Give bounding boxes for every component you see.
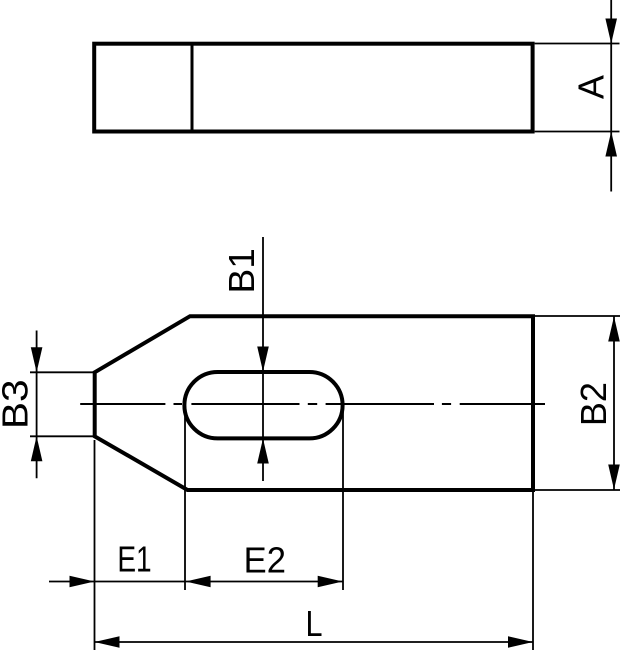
- dimension B2: upper extension line: [535, 315, 620, 317]
- bottom view: plate plan outline: [95, 316, 533, 490]
- svg-text:B2: B2: [573, 382, 614, 426]
- dimension B2: lower extension line: [535, 489, 620, 491]
- svg-text:L: L: [305, 605, 322, 645]
- extension line: slot left edge / taper corner extended down (E1/E2 bound): [184, 406, 186, 590]
- dimension B3: lower arrow (points up): [31, 436, 43, 461]
- dimension E1/E2: shared dimension line: [49, 581, 343, 583]
- extension line: left tip edge extended down (E1/L left bound): [94, 440, 96, 650]
- dimension E2: left arrow (points left): [186, 576, 211, 588]
- dimension A: lower arrow (points up): [605, 132, 617, 157]
- top view: plate side outline: [94, 44, 532, 132]
- dimension B3: upper extension line: [30, 371, 93, 373]
- dimension B2: upper arrow (points up): [608, 317, 620, 342]
- dimension A: upper arrow (points down): [605, 19, 617, 44]
- extension line: slot right edge extended down (E2 right bound): [342, 406, 344, 590]
- dimension B2: lower arrow (points down): [608, 465, 620, 490]
- centerline (dash-dot): [80, 403, 545, 405]
- extension line: plate right edge extended down (L right bound): [532, 492, 534, 650]
- dimension L: right arrow (points right): [508, 636, 533, 648]
- svg-text:B1: B1: [221, 248, 261, 293]
- top view: clamp step divider line: [191, 44, 194, 132]
- dimension B1: upper arrow (points down to slot top): [257, 347, 269, 372]
- dimension B3: dimension line: [36, 331, 38, 479]
- dimension E1: outside arrow left (points right): [70, 576, 95, 588]
- svg-text:E1: E1: [117, 539, 151, 579]
- bottom view: slot (obround hole): [184, 372, 342, 438]
- dimension B2: dimension line: [613, 316, 615, 490]
- svg-text:A: A: [570, 75, 611, 99]
- dimension L: left arrow (points left): [95, 636, 120, 648]
- dimension B1: vertical dimension line through slot: [262, 237, 264, 481]
- dimension A: top extension line: [535, 43, 620, 45]
- dimension E2: right arrow (points right): [318, 576, 343, 588]
- dimension B3: upper arrow (points down): [31, 347, 43, 372]
- dimension B1: lower arrow (points up to slot bottom): [257, 439, 269, 464]
- svg-text:B3: B3: [0, 379, 36, 429]
- dimension B3: lower extension line: [30, 435, 93, 437]
- dimension A: dimension line: [610, 0, 612, 192]
- dimension A: bottom extension line: [535, 131, 620, 133]
- svg-text:E2: E2: [244, 541, 286, 581]
- dimension L: dimension line: [95, 641, 534, 643]
